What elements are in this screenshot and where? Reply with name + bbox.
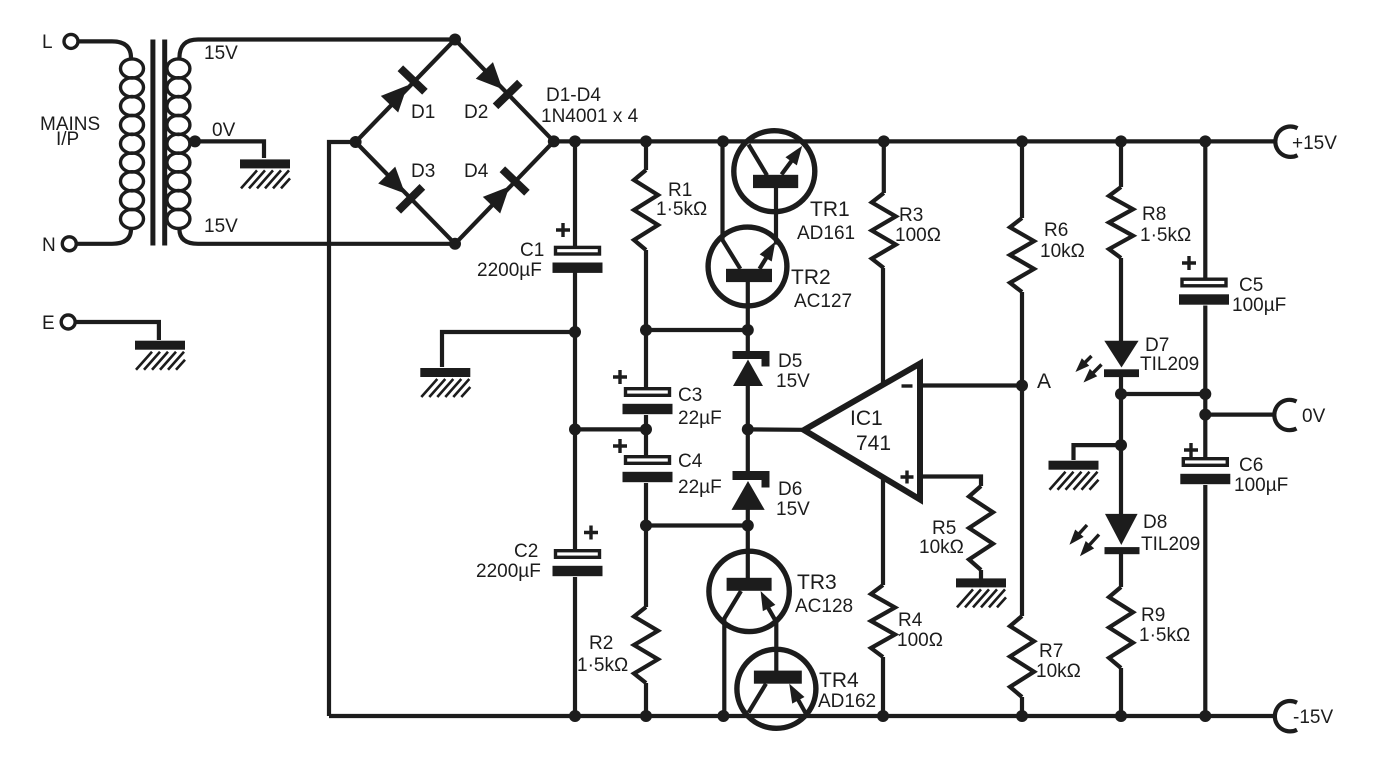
wire TR2 collector <box>723 141 741 268</box>
node D7 to 0V <box>1115 388 1127 400</box>
svg-text:TR4: TR4 <box>819 669 859 692</box>
terminal N <box>62 237 76 251</box>
svg-text:1N4001 x 4: 1N4001 x 4 <box>541 106 639 127</box>
svg-text:R9: R9 <box>1141 605 1165 626</box>
svg-text:1·5kΩ: 1·5kΩ <box>577 655 628 676</box>
svg-text:100Ω: 100Ω <box>897 630 943 651</box>
svg-text:R7: R7 <box>1039 641 1063 662</box>
resistor R7 <box>1010 616 1034 697</box>
terminal L <box>64 34 78 48</box>
node C6 bottom <box>1199 710 1211 722</box>
wire op-amp V+ supply <box>881 268 885 385</box>
node C4-R2 <box>640 520 652 532</box>
node LED ground tee <box>1115 439 1127 451</box>
svg-text:AD162: AD162 <box>818 691 876 712</box>
LED D7 <box>1072 341 1139 387</box>
wire bridge arm lower-right <box>455 141 554 243</box>
wire R9 bottom <box>1119 668 1123 716</box>
wire bridge arm upper-right <box>455 40 554 142</box>
svg-text:+15V: +15V <box>1292 133 1337 154</box>
wire D5 anode <box>746 386 750 429</box>
svg-text:C4: C4 <box>678 451 703 472</box>
node 0V link <box>1199 388 1211 400</box>
wire -15V rail <box>329 714 1277 718</box>
svg-text:D1: D1 <box>411 102 435 123</box>
node bridge right <box>548 135 560 147</box>
svg-text:R8: R8 <box>1142 204 1166 225</box>
svg-text:2200µF: 2200µF <box>477 260 542 281</box>
node op-amp output <box>742 423 754 435</box>
wire C3 bottom <box>644 415 648 455</box>
svg-text:TIL209: TIL209 <box>1140 354 1199 375</box>
transformer T1 secondary winding <box>167 59 190 229</box>
svg-text:0V: 0V <box>1302 406 1326 427</box>
wire bridge left node to -15V rail <box>329 142 356 716</box>
wire bridge arm upper-left <box>356 40 455 143</box>
svg-text:E: E <box>42 313 55 334</box>
svg-text:D4: D4 <box>464 161 489 182</box>
pin minus <box>902 384 913 387</box>
svg-text:R6: R6 <box>1044 220 1068 241</box>
wire L to primary <box>78 41 131 58</box>
node A <box>1016 380 1028 392</box>
svg-text:R3: R3 <box>899 205 923 226</box>
wire R1 bottom <box>644 250 648 387</box>
resistor R5 <box>969 486 993 570</box>
svg-text:D5: D5 <box>778 351 802 372</box>
ground (0V tap) <box>240 159 290 188</box>
svg-text:R2: R2 <box>589 633 613 654</box>
wire D7 cathode <box>1119 377 1123 445</box>
svg-text:TR1: TR1 <box>810 198 850 221</box>
wire E to ground <box>75 322 159 340</box>
capacitor C3 <box>623 389 673 415</box>
wire C1 bottom <box>573 272 577 429</box>
node R7 bottom <box>1016 710 1028 722</box>
wire to ground (centre tap) <box>442 332 575 367</box>
node D6 anode <box>742 520 754 532</box>
svg-text:R4: R4 <box>898 610 923 631</box>
wire tee to TR2 base <box>646 328 748 332</box>
node 0V mid link <box>569 423 581 435</box>
diode D2 <box>472 59 523 110</box>
svg-text:D3: D3 <box>411 161 435 182</box>
node TR3 collector rail <box>717 710 729 722</box>
capacitor C6 <box>1180 459 1230 485</box>
wire R8 to D7 <box>1119 258 1123 341</box>
svg-text:IC1: IC1 <box>850 407 883 430</box>
wire R8 top <box>1119 141 1123 187</box>
node 0V tap <box>189 135 201 147</box>
resistor R8 <box>1109 187 1133 258</box>
node bridge top <box>449 34 461 46</box>
svg-text:10kΩ: 10kΩ <box>919 537 964 558</box>
node R8 top <box>1115 135 1127 147</box>
svg-text:C2: C2 <box>514 541 538 562</box>
resistor R3 <box>872 193 896 268</box>
svg-text:D8: D8 <box>1143 512 1167 533</box>
wire C2 bottom <box>573 577 577 716</box>
terminal +15V <box>1275 126 1297 156</box>
svg-text:C1: C1 <box>520 240 544 261</box>
node R1 top <box>640 135 652 147</box>
svg-text:15V: 15V <box>776 371 810 392</box>
svg-text:-15V: -15V <box>1293 707 1333 728</box>
svg-text:TR3: TR3 <box>797 571 837 594</box>
wire R6 top <box>1020 141 1024 218</box>
zener D6 <box>732 471 770 510</box>
node C5 top <box>1199 135 1211 147</box>
svg-text:100Ω: 100Ω <box>895 225 941 246</box>
terminal 0V <box>1274 400 1296 430</box>
svg-text:TIL209: TIL209 <box>1141 534 1200 555</box>
svg-text:10kΩ: 10kΩ <box>1036 661 1081 682</box>
pin plus <box>901 471 914 484</box>
wire inverting input to node A <box>920 383 1022 387</box>
wire R7 bottom <box>1020 697 1024 716</box>
svg-text:C5: C5 <box>1239 275 1263 296</box>
svg-text:22µF: 22µF <box>678 408 722 429</box>
wire C5 bottom <box>1203 306 1207 458</box>
op-amp IC1 <box>804 364 920 500</box>
svg-text:N: N <box>42 235 56 256</box>
wire N to primary <box>76 229 131 244</box>
resistor R2 <box>634 607 658 683</box>
wire 0V output <box>1205 413 1276 417</box>
svg-text:100µF: 100µF <box>1234 475 1288 496</box>
svg-text:R5: R5 <box>932 518 956 539</box>
node R4 bottom <box>877 710 889 722</box>
node C3-C4 <box>640 423 652 435</box>
node R2 bottom <box>640 710 652 722</box>
wire R4 bottom <box>881 657 885 716</box>
transistor TR2 <box>708 227 787 330</box>
diode D3 <box>375 163 426 214</box>
svg-text:D2: D2 <box>464 102 488 123</box>
wire D6 cathode <box>746 429 750 472</box>
wire 0V tap to ground <box>193 141 264 158</box>
capacitor C5 <box>1179 279 1229 305</box>
transistor TR3 <box>709 551 789 716</box>
svg-text:A: A <box>1037 370 1051 393</box>
node C1 ground tee <box>569 326 581 338</box>
node 0V output <box>1199 409 1211 421</box>
node R3 top <box>878 135 890 147</box>
svg-text:22µF: 22µF <box>678 477 722 498</box>
wire C2 top <box>573 429 577 549</box>
svg-text:1·5kΩ: 1·5kΩ <box>656 199 707 220</box>
wire C5 top <box>1203 141 1207 277</box>
wire secondary top to bridge top node <box>179 40 455 59</box>
svg-text:R1: R1 <box>668 180 692 201</box>
wire to D8 anode <box>1119 445 1123 514</box>
ground (R5) <box>956 578 1006 607</box>
svg-text:TR2: TR2 <box>791 266 831 289</box>
transformer T1 primary winding <box>121 59 144 229</box>
wire +15V rail <box>554 139 1277 143</box>
wire R6 to R7 <box>1020 292 1024 616</box>
svg-text:I/P: I/P <box>56 129 79 150</box>
svg-text:D7: D7 <box>1145 335 1169 356</box>
node R1-C3 <box>640 324 652 336</box>
resistor R1 <box>634 170 658 250</box>
transistor TR4 <box>737 649 816 728</box>
wire to ground (LED) <box>1074 445 1122 460</box>
svg-text:15V: 15V <box>204 216 238 237</box>
svg-text:D6: D6 <box>778 479 802 500</box>
wire C1 top <box>573 141 577 247</box>
terminal -15V <box>1275 701 1297 731</box>
resistor R9 <box>1109 587 1133 668</box>
wire op-amp V- supply <box>881 475 885 585</box>
svg-text:AD161: AD161 <box>797 223 855 244</box>
wire D6 anode to TR3 base <box>746 509 750 578</box>
capacitor C1 <box>553 247 603 273</box>
ground (earth) <box>135 341 185 370</box>
transformer T1 core <box>150 40 155 246</box>
ground (centre) <box>420 368 470 397</box>
capacitor C4 <box>623 457 673 483</box>
node R6 top <box>1016 135 1028 147</box>
svg-text:741: 741 <box>856 432 891 455</box>
svg-text:0V: 0V <box>212 120 236 141</box>
wire 0V mid link <box>575 427 646 431</box>
node bridge bottom <box>449 238 461 250</box>
svg-text:D1-D4: D1-D4 <box>546 85 601 106</box>
wire non-inverting input to R5 <box>920 477 981 487</box>
resistor R6 <box>1010 218 1034 292</box>
ground (LED) <box>1049 461 1099 490</box>
wire D5 cathode <box>746 330 750 352</box>
node R9 bottom <box>1115 710 1127 722</box>
wire R5 to ground <box>979 570 983 579</box>
node TR2 collector rail <box>717 135 729 147</box>
diode D1 <box>377 65 427 116</box>
svg-text:C3: C3 <box>678 385 702 406</box>
svg-text:C6: C6 <box>1239 455 1263 476</box>
wire bridge arm lower-left <box>356 142 455 244</box>
zener D5 <box>733 351 770 386</box>
wire tee to D6 anode <box>646 523 748 527</box>
svg-text:100µF: 100µF <box>1232 295 1286 316</box>
LED D8 <box>1065 514 1139 560</box>
node bridge left <box>350 136 362 148</box>
resistor R4 <box>871 585 895 657</box>
svg-text:AC127: AC127 <box>794 291 852 312</box>
wire C4 bottom <box>644 483 648 607</box>
wire C6 bottom <box>1203 485 1207 716</box>
svg-text:1·5kΩ: 1·5kΩ <box>1139 625 1190 646</box>
svg-text:2200µF: 2200µF <box>476 561 541 582</box>
node C1 top <box>569 135 581 147</box>
svg-text:1·5kΩ: 1·5kΩ <box>1140 225 1191 246</box>
svg-text:L: L <box>42 32 53 53</box>
transistor TR1 <box>734 131 815 245</box>
wire D7 node to C5 column <box>1121 392 1205 396</box>
wire D8 to R9 <box>1119 554 1123 587</box>
wire R3 top <box>882 141 886 193</box>
diode D4 <box>479 166 529 217</box>
wire R2 bottom <box>644 683 648 716</box>
capacitor C2 <box>553 551 603 577</box>
wire op-amp output <box>748 427 802 432</box>
svg-text:15V: 15V <box>776 499 810 520</box>
svg-text:10kΩ: 10kΩ <box>1040 241 1085 262</box>
wire secondary bottom to bridge bottom node <box>179 229 455 244</box>
node C2 bottom <box>569 710 581 722</box>
terminal E <box>61 315 75 329</box>
node TR2 base <box>742 324 754 336</box>
svg-text:AC128: AC128 <box>795 596 853 617</box>
svg-text:15V: 15V <box>204 43 238 64</box>
wire R1 top <box>644 141 648 170</box>
